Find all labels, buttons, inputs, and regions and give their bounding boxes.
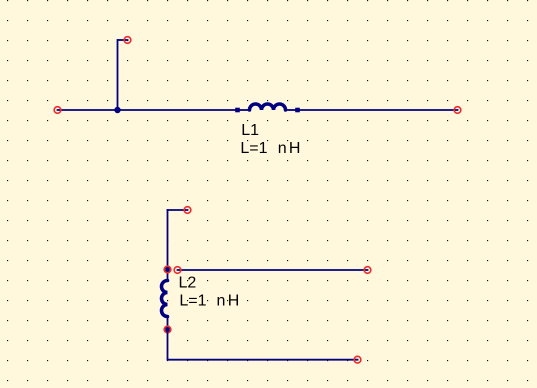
svg-text:nH: nH [278, 140, 303, 157]
wire: bottom horizontal segment [167, 359, 359, 361]
node: open terminal at top stub [124, 37, 131, 44]
node: open terminal right of middle wire [364, 267, 371, 274]
node: open terminal at bottom wire end [354, 356, 361, 363]
svg-text:L=1: L=1 [240, 140, 267, 157]
wire: top-left horizontal segment (port to L1) [57, 109, 238, 111]
node: open terminal at L2 top pin [164, 266, 171, 273]
node: open terminal at L2 bottom pin [164, 326, 171, 333]
wire: vertical stub from junction [117, 39, 119, 110]
svg-text:L=1: L=1 [179, 292, 206, 309]
svg-text:L1: L1 [241, 122, 259, 139]
inductor L1 [235, 104, 300, 112]
inductor L2 [162, 267, 170, 332]
node: open terminal top-right port [454, 107, 461, 114]
svg-text:nH: nH [217, 292, 242, 309]
wire: short horizontal stub above L2 [167, 209, 189, 211]
node: open wire end left of middle wire [174, 267, 181, 274]
svg-text:L2: L2 [179, 274, 197, 291]
node: open terminal top-left port [54, 107, 61, 114]
wire: vertical segment above L2 [167, 209, 169, 270]
wire: middle horizontal segment [177, 269, 369, 271]
wire: top-right horizontal segment (L1 to port) [298, 109, 459, 111]
wire: vertical segment below L2 [167, 330, 169, 360]
junction: node dot on top wire [114, 107, 120, 113]
wire: short horizontal stub at top [118, 39, 129, 41]
node: open terminal at top stub of L2 [184, 207, 191, 214]
